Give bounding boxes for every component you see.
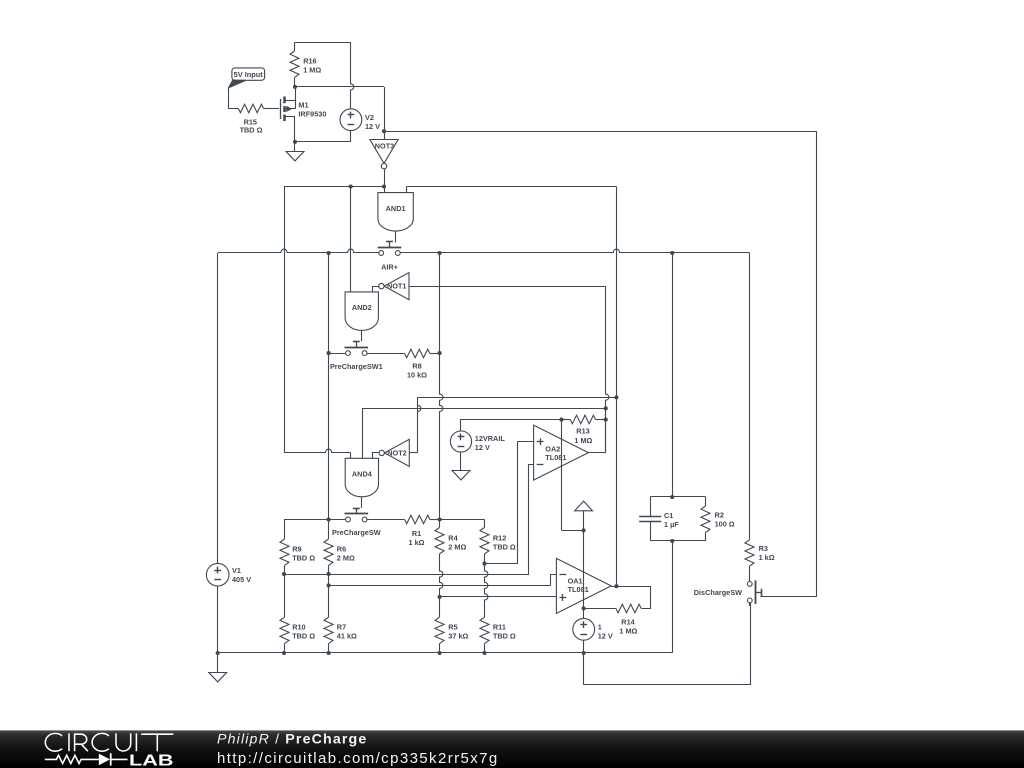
wire 5V input to R15 bbox=[229, 88, 239, 109]
node R8 right junction bbox=[438, 351, 442, 355]
svg-text:TBD Ω: TBD Ω bbox=[292, 554, 315, 563]
svg-text:1 MΩ: 1 MΩ bbox=[619, 626, 637, 635]
resistor R15 bbox=[238, 104, 263, 113]
svg-text:AND4: AND4 bbox=[352, 470, 373, 479]
svg-text:LAB: LAB bbox=[129, 752, 174, 768]
svg-text:41 kΩ: 41 kΩ bbox=[337, 632, 357, 641]
logo CircuitLab bbox=[45, 733, 173, 751]
inverter NOT2 bbox=[385, 439, 410, 466]
wire AND2 output to PreChargeSW1 actuator bbox=[361, 330, 363, 341]
node R12 bottom junction bbox=[482, 562, 486, 566]
node OA1 output riser junction bbox=[614, 395, 618, 399]
wire M1 source to V2 minus bbox=[295, 131, 351, 142]
net flag feedback node bbox=[575, 501, 593, 511]
wire R14 to feedback node bbox=[584, 608, 616, 610]
wire left riser to AND4 input A bbox=[284, 187, 286, 453]
svg-text:AIR+: AIR+ bbox=[381, 262, 398, 271]
svg-text:R6: R6 bbox=[337, 545, 346, 554]
node M1 drain junction bbox=[293, 85, 297, 89]
wire AND2 input A riser bbox=[350, 187, 352, 292]
node R10 ground junction bbox=[282, 651, 286, 655]
node AIR+ bus R8 junction bbox=[438, 251, 442, 255]
svg-text:12 V: 12 V bbox=[598, 631, 613, 640]
wire C1 bottom bbox=[650, 540, 705, 542]
svg-text:PreChargeSW1: PreChargeSW1 bbox=[330, 362, 383, 371]
node R7 top junction bbox=[327, 583, 331, 587]
svg-text:1 MΩ: 1 MΩ bbox=[303, 65, 321, 74]
wire PreChargeSW1 to PreChargeSW column bbox=[328, 353, 330, 519]
wire R13 left to feedback node bbox=[561, 420, 563, 531]
node source 1 ground junction bbox=[582, 651, 586, 655]
svg-text:12 V: 12 V bbox=[475, 443, 490, 452]
wire AND1 input B from OA1 output riser bbox=[406, 187, 408, 193]
svg-text:TBD Ω: TBD Ω bbox=[240, 125, 263, 134]
node R6 top junction bbox=[327, 517, 331, 521]
and-gate AND1 bbox=[378, 193, 413, 232]
svg-text:TL081: TL081 bbox=[568, 585, 589, 594]
resistor R5 bbox=[439, 597, 441, 617]
resistor R6 bbox=[328, 520, 330, 540]
svg-text:TBD Ω: TBD Ω bbox=[493, 632, 516, 641]
voltage source V1 405V bbox=[206, 563, 229, 586]
switch PreChargeSW bbox=[345, 513, 369, 515]
svg-text:V2: V2 bbox=[365, 113, 374, 122]
svg-text:http://circuitlab.com/cp335k2r: http://circuitlab.com/cp335k2rr5x7g bbox=[217, 750, 499, 767]
svg-text:TBD Ω: TBD Ω bbox=[493, 543, 516, 552]
resistor R9 bbox=[284, 520, 286, 540]
resistor R2 bbox=[705, 497, 707, 506]
svg-text:R8: R8 bbox=[412, 361, 421, 370]
wire ground bus to DisChargeSW bottom bbox=[584, 603, 751, 685]
wire AIR+ to R8 column bbox=[439, 253, 441, 353]
ground under 12VRAIL bbox=[460, 452, 462, 471]
svg-text:TL081: TL081 bbox=[545, 453, 566, 462]
resistor R8 bbox=[405, 349, 430, 358]
flag 5V Input bbox=[232, 68, 265, 80]
node AND2 input A junction bbox=[349, 184, 353, 188]
wire NOT2 input from OA1 output bbox=[410, 452, 418, 454]
and-gate AND4 bbox=[345, 458, 378, 496]
resistor R13 bbox=[562, 419, 571, 421]
wire AND4 output to PreChargeSW actuator bbox=[361, 497, 363, 508]
node R4 top junction bbox=[438, 517, 442, 521]
svg-text:12 V: 12 V bbox=[365, 122, 380, 131]
svg-text:PhilipR / PreCharge: PhilipR / PreCharge bbox=[217, 732, 367, 748]
svg-text:DisChargeSW: DisChargeSW bbox=[694, 588, 742, 597]
svg-text:R7: R7 bbox=[337, 623, 346, 632]
wire AND1 input A stem bbox=[384, 187, 386, 193]
wire OA1 output riser bbox=[616, 397, 618, 586]
svg-text:R5: R5 bbox=[448, 623, 457, 632]
node C1 top junction bbox=[670, 495, 674, 499]
node R5 ground junction bbox=[438, 651, 442, 655]
switch AIR+ bbox=[378, 247, 402, 249]
wire NOT3 output bus left bbox=[284, 186, 384, 188]
op-amp OA1 TL081 bbox=[556, 558, 611, 613]
svg-text:1 MΩ: 1 MΩ bbox=[574, 436, 592, 445]
node R4 bottom junction bbox=[438, 595, 442, 599]
wire source 1 to ground bus bbox=[583, 640, 585, 653]
svg-text:1: 1 bbox=[598, 622, 602, 631]
wire AIR+ bus to V1 bbox=[217, 253, 219, 564]
svg-text:1 µF: 1 µF bbox=[664, 520, 679, 529]
resistor R1 bbox=[405, 515, 430, 524]
switch PreChargeSW1 bbox=[345, 347, 369, 349]
svg-text:2 MΩ: 2 MΩ bbox=[448, 543, 466, 552]
resistor R3 bbox=[745, 540, 754, 566]
resistor R11 bbox=[480, 617, 489, 643]
svg-text:405 V: 405 V bbox=[232, 575, 251, 584]
wire AIR+ bus to R3 bbox=[749, 253, 751, 540]
inverter NOT1 bbox=[384, 273, 409, 300]
wire NOT1 output to AND2 input B bbox=[373, 287, 379, 292]
svg-text:R4: R4 bbox=[448, 534, 458, 543]
svg-text:R1: R1 bbox=[412, 529, 421, 538]
wire R1 to R4 column bbox=[430, 519, 440, 521]
wire R12 to R11 bbox=[485, 564, 488, 618]
wire NOT2 output to AND4 input C bbox=[373, 453, 379, 459]
wire OA2 non-inverting input to R12 bbox=[485, 442, 534, 564]
wire AIR+ bus bbox=[218, 249, 379, 252]
resistor R16 bbox=[294, 42, 296, 51]
svg-text:NOT2: NOT2 bbox=[387, 449, 406, 458]
svg-text:PreChargeSW: PreChargeSW bbox=[332, 528, 381, 537]
wire V1 to ground bus bbox=[217, 586, 219, 653]
svg-text:NOT1: NOT1 bbox=[387, 282, 406, 291]
voltage source V2 12V bbox=[340, 109, 362, 131]
svg-text:C1: C1 bbox=[664, 511, 673, 520]
ground under M1 bbox=[294, 142, 296, 151]
wire M1 drain to NOT3 column bbox=[295, 86, 384, 88]
svg-text:V1: V1 bbox=[232, 566, 241, 575]
wire PreChargeSW1 to R8 bbox=[367, 353, 404, 355]
and-gate AND2 bbox=[345, 292, 378, 330]
svg-text:37 kΩ: 37 kΩ bbox=[448, 632, 468, 641]
svg-text:R2: R2 bbox=[715, 510, 724, 519]
node AIR+ bus C1 junction bbox=[670, 251, 674, 255]
wire R8 to R1 column bbox=[440, 353, 443, 519]
wire R16 top loop to V2 bbox=[295, 42, 351, 44]
resistor R4 bbox=[439, 520, 441, 528]
wire AND4 input B from OA2 output bbox=[362, 408, 364, 458]
capacitor C1 bbox=[650, 496, 705, 498]
node R13 left junction bbox=[559, 418, 563, 422]
svg-text:100 Ω: 100 Ω bbox=[715, 519, 735, 528]
svg-text:R14: R14 bbox=[621, 617, 635, 626]
wire divider row to OA2 inverting input bbox=[284, 574, 529, 576]
svg-text:R9: R9 bbox=[292, 545, 301, 554]
node C1 bottom junction bbox=[670, 539, 674, 543]
wire R4 to R12 row bbox=[440, 519, 485, 521]
transistor M1 IRF9530 bbox=[280, 99, 282, 119]
ground under V1 bbox=[217, 653, 219, 672]
resistor R10 bbox=[284, 574, 286, 617]
svg-text:R10: R10 bbox=[292, 623, 305, 632]
node R9 bottom junction bbox=[282, 572, 286, 576]
svg-text:10 kΩ: 10 kΩ bbox=[407, 370, 427, 379]
node OA2 output riser junction bbox=[604, 406, 608, 410]
wire DisChargeSW bottom bbox=[749, 603, 751, 606]
wire divider row to OA1 non-inverting input bbox=[440, 596, 557, 598]
node NOT3 input junction bbox=[382, 129, 386, 133]
svg-text:R13: R13 bbox=[576, 427, 589, 436]
svg-text:1 kΩ: 1 kΩ bbox=[759, 553, 775, 562]
wire OA1 output to R14 loop bbox=[612, 587, 651, 609]
wire AIR+ to PreChargeSW column bbox=[328, 253, 330, 353]
svg-text:TBD Ω: TBD Ω bbox=[292, 632, 315, 641]
svg-text:R3: R3 bbox=[759, 544, 768, 553]
wire AIR+ to C1 top bbox=[672, 253, 674, 497]
wire PreChargeSW1 left bbox=[329, 353, 346, 355]
node V1 ground junction bbox=[216, 651, 220, 655]
wire AND1 output to AIR+ actuator bbox=[395, 231, 397, 242]
svg-text:R12: R12 bbox=[493, 534, 506, 543]
node R7 ground junction bbox=[327, 651, 331, 655]
inverter NOT3 bbox=[384, 131, 386, 139]
wire PreChargeSW row bbox=[284, 519, 345, 521]
node PreChargeSW1 left junction bbox=[327, 351, 331, 355]
node OA1 output junction bbox=[614, 584, 618, 588]
switch DisChargeSW bbox=[747, 582, 752, 587]
svg-text:M1: M1 bbox=[298, 100, 308, 109]
svg-text:IRF9530: IRF9530 bbox=[298, 109, 326, 118]
svg-text:AND1: AND1 bbox=[386, 204, 406, 213]
svg-text:R11: R11 bbox=[493, 623, 506, 632]
svg-text:NOT3: NOT3 bbox=[375, 142, 394, 151]
resistor R7 bbox=[328, 585, 330, 617]
voltage source 1 12V bbox=[583, 608, 585, 618]
svg-text:1 kΩ: 1 kΩ bbox=[409, 538, 425, 547]
voltage source 12VRAIL bbox=[450, 431, 471, 452]
wire NOT3 input to DisChargeSW control bbox=[384, 131, 817, 133]
svg-text:2 MΩ: 2 MΩ bbox=[337, 554, 355, 563]
wire OA2 output bbox=[589, 452, 606, 454]
wire R8 to column bbox=[430, 353, 440, 355]
node R11 ground junction bbox=[482, 651, 486, 655]
wire 12VRAIL to R13 bbox=[461, 420, 562, 431]
node NOT3 output junction bbox=[382, 184, 386, 188]
svg-text:5V Input: 5V Input bbox=[234, 70, 264, 79]
node R13 right junction bbox=[604, 418, 608, 422]
resistor R12 bbox=[484, 520, 486, 528]
svg-text:AND2: AND2 bbox=[352, 303, 372, 312]
wire NOT3 output bbox=[384, 169, 386, 187]
node R6 bottom junction bbox=[327, 572, 331, 576]
node R14 left junction bbox=[582, 606, 586, 610]
wire OA2 inverting input bbox=[529, 465, 534, 575]
svg-text:12VRAIL: 12VRAIL bbox=[475, 434, 506, 443]
resistor R14 bbox=[616, 604, 641, 613]
wire feedback node to R14 bbox=[583, 530, 585, 608]
wire ground bus bbox=[218, 652, 673, 654]
node AIR+ bus R6 junction bbox=[327, 251, 331, 255]
node feedback flag junction bbox=[582, 528, 586, 532]
wire NOT1 input from OA2 output bbox=[409, 286, 606, 288]
wire divider row to OA1 inverting input bbox=[329, 585, 550, 587]
wire R6 to R7 bbox=[328, 574, 330, 585]
node M1 source junction bbox=[293, 140, 297, 144]
svg-text:R16: R16 bbox=[303, 56, 316, 65]
op-amp OA2 TL081 bbox=[534, 425, 589, 480]
wire R13 right riser bbox=[605, 408, 607, 419]
